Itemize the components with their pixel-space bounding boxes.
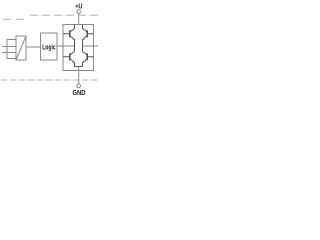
GND terminal xyxy=(77,84,81,88)
ground rail inside bridge xyxy=(75,66,83,68)
transistor Q4 (bottom-right) xyxy=(83,51,94,66)
transistor Q2 (top-right) xyxy=(83,25,94,52)
svg-text:Logic: Logic xyxy=(42,45,56,52)
wire Logic to H-bridge / left output node xyxy=(57,45,75,47)
input stub wire 1 xyxy=(2,46,7,48)
level shifter box U1 xyxy=(16,36,26,60)
wire +U to H-bridge xyxy=(78,13,80,24)
+U terminal xyxy=(77,10,81,14)
svg-text:GND: GND xyxy=(72,90,85,97)
connector divider 2 xyxy=(7,52,16,54)
transistor Q1 (top-left) xyxy=(63,25,75,52)
module boundary dashed top-left xyxy=(3,18,25,20)
connector block X1 xyxy=(7,40,16,59)
transistor Q3 (bottom-left) xyxy=(63,51,75,66)
level shifter diagonal xyxy=(16,36,26,60)
input stub wire 2 xyxy=(2,52,7,54)
connector divider 1 xyxy=(7,46,16,48)
wire bridge to GND terminal xyxy=(78,67,80,85)
wire right output node to edge stub xyxy=(83,45,99,47)
module boundary dashed bottom xyxy=(1,79,100,81)
logic box U2 xyxy=(41,33,58,60)
wire U1 to Logic xyxy=(26,46,41,48)
H-bridge box U3 xyxy=(63,25,94,71)
module boundary dashed top-right xyxy=(30,14,100,16)
